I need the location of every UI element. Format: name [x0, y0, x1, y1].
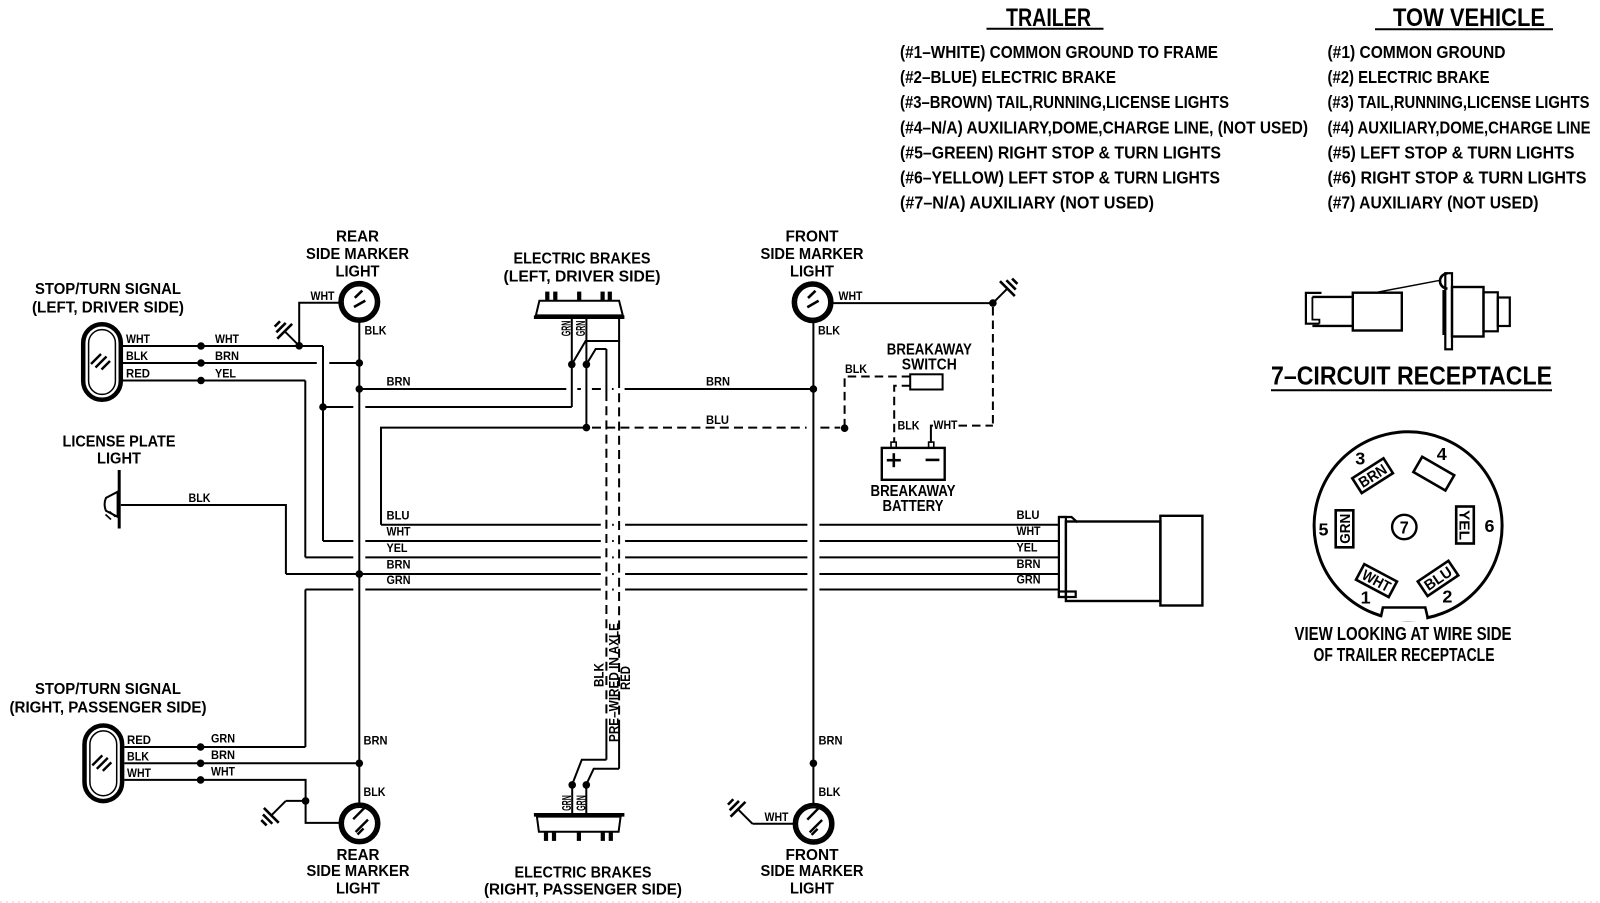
svg-text:(#4–N/A) AUXILIARY,DOME,CHARG: (#4–N/A) AUXILIARY,DOME,CHARGE LINE, (NO… [900, 117, 1308, 137]
wire GRN riser to right lamp [304, 590, 306, 748]
svg-text:GRN: GRN [1017, 573, 1041, 587]
svg-text:VIEW LOOKING AT WIRE SIDE: VIEW LOOKING AT WIRE SIDE [1295, 623, 1512, 644]
svg-text:YEL: YEL [387, 541, 408, 555]
receptacle side view: step [1484, 292, 1498, 331]
wire right brake node down [585, 364, 587, 427]
pin 4 aux box [1413, 457, 1454, 491]
svg-text:RED: RED [126, 367, 150, 381]
front side marker lamp (top) [794, 283, 832, 321]
svg-text:1: 1 [1361, 588, 1371, 608]
harness wire BRN [286, 573, 601, 575]
svg-text:(RIGHT, PASSENGER SIDE): (RIGHT, PASSENGER SIDE) [10, 700, 207, 717]
junction WHT/ground node [295, 342, 303, 350]
wire RED from right stop/turn lamp [124, 746, 305, 748]
svg-text:LICENSE PLATE: LICENSE PLATE [63, 434, 176, 451]
front side marker lamp (bottom) [795, 805, 833, 843]
junction BLU at breakaway drop [841, 424, 849, 432]
harness wire BLU [381, 524, 601, 526]
svg-text:BRN: BRN [1017, 557, 1041, 571]
receptacle side view: gasket strip [1442, 290, 1445, 335]
receptacle side view: dust cap ring [1440, 274, 1447, 289]
svg-text:LIGHT: LIGHT [336, 881, 380, 898]
pin 1 WHT box [1356, 564, 1397, 597]
svg-text:BLK: BLK [126, 349, 148, 363]
junction lower V2 [810, 760, 818, 768]
wire WHT to rear side marker (top) [299, 303, 340, 346]
stop/turn signal (left) lamp body [83, 324, 121, 400]
svg-text:(LEFT, DRIVER SIDE): (LEFT, DRIVER SIDE) [32, 299, 184, 316]
svg-text:RED: RED [127, 733, 151, 747]
wire left pin of top brake [571, 319, 573, 365]
junction on RED wire [197, 377, 205, 385]
junction left pin (bottom brake) [568, 781, 576, 789]
pin 2 BLU box [1418, 561, 1459, 596]
svg-text:(#2–BLUE) ELECTRIC BRAKE: (#2–BLUE) ELECTRIC BRAKE [900, 67, 1116, 87]
electric brakes (right) terminals [544, 832, 548, 841]
wire BRN branch to front marker [359, 388, 566, 390]
harness wire GRN [305, 589, 353, 591]
svg-text:WHT: WHT [765, 810, 790, 824]
receptacle side view: lanyard [1375, 280, 1440, 292]
svg-text:YEL: YEL [1017, 541, 1038, 555]
receptacle side view: nose [1498, 298, 1510, 327]
harness wire YEL [305, 556, 353, 558]
svg-text:(#2) ELECTRIC BRAKE: (#2) ELECTRIC BRAKE [1328, 67, 1490, 87]
svg-text:BRN: BRN [706, 375, 730, 389]
license plate light symbol [118, 470, 121, 529]
svg-text:BATTERY: BATTERY [883, 498, 944, 515]
harness connector bottom tab [1059, 592, 1076, 598]
svg-text:YEL: YEL [215, 367, 236, 381]
harness wire WHT [323, 540, 353, 542]
junction WHT/ground node (bottom) [302, 797, 310, 805]
wire WHT to front marker (bottom) [753, 823, 795, 825]
wire WHT from right stop/turn lamp [124, 780, 340, 823]
svg-text:BLK: BLK [189, 491, 211, 505]
svg-text:STOP/TURN SIGNAL: STOP/TURN SIGNAL [35, 681, 181, 698]
svg-text:WHT: WHT [934, 418, 959, 432]
svg-text:GRN: GRN [1337, 514, 1354, 544]
svg-text:REAR: REAR [337, 847, 380, 864]
page bottom artifact [0, 901, 1600, 903]
svg-text:7: 7 [1400, 517, 1409, 537]
svg-text:4: 4 [1437, 444, 1447, 464]
stop/turn signal (right) lamp body [85, 726, 123, 802]
receptacle side view: left bracket [1306, 293, 1322, 324]
svg-text:LIGHT: LIGHT [790, 264, 834, 281]
svg-text:(#1) COMMON GROUND: (#1) COMMON GROUND [1328, 42, 1506, 62]
svg-text:(#3) TAIL,RUNNING,LICENSE LI: (#3) TAIL,RUNNING,LICENSE LIGHTS [1328, 92, 1590, 112]
pin 3 BRN box [1352, 458, 1393, 493]
svg-text:SIDE MARKER: SIDE MARKER [761, 246, 864, 263]
svg-text:(#5–GREEN) RIGHT STOP & TU: (#5–GREEN) RIGHT STOP & TURN LIGHTS [900, 142, 1221, 162]
junction on BLK wire (right lamp) [197, 760, 205, 768]
wire brake crossover B [586, 349, 606, 364]
wire WHT dashed front marker to battery - [992, 307, 994, 426]
battery + symbol [887, 459, 901, 462]
svg-text:BLU: BLU [706, 413, 729, 427]
svg-text:LIGHT: LIGHT [97, 450, 141, 467]
svg-text:BLK: BLK [819, 785, 841, 799]
svg-text:SIDE MARKER: SIDE MARKER [306, 246, 409, 263]
junction V1 lower BRN/BLK [356, 760, 364, 768]
receptacle side view: mounting flange [1445, 273, 1452, 349]
wire WHT from front marker [832, 302, 993, 304]
svg-text:WHT: WHT [1017, 524, 1042, 538]
chassis ground at left stop/turn [285, 331, 299, 345]
svg-text:WHT: WHT [126, 332, 151, 346]
svg-text:GRN: GRN [575, 795, 589, 811]
junction V1 with harness BRN [356, 570, 364, 578]
wire right pin of top brake [585, 319, 587, 365]
wire BLK dashed to breakaway switch [845, 377, 911, 426]
junction on BLK wire [197, 359, 205, 367]
svg-text:SIDE MARKER: SIDE MARKER [761, 863, 864, 880]
svg-text:SWITCH: SWITCH [902, 357, 957, 374]
svg-text:BRN: BRN [819, 734, 843, 748]
svg-text:BRN: BRN [387, 375, 411, 389]
svg-text:WHT: WHT [211, 764, 236, 778]
wire BLK/BRN front vertical V2 [812, 321, 814, 804]
junction on WHT wire (right lamp) [197, 776, 205, 784]
svg-text:RED: RED [618, 666, 633, 690]
receptacle face bottom notch [1382, 605, 1426, 622]
chassis ground at front marker (bottom) [738, 809, 752, 823]
harness connector flange [1059, 517, 1066, 597]
chassis ground at front marker [993, 289, 1007, 303]
svg-text:BRN: BRN [211, 748, 235, 762]
wire left brake node down [571, 364, 573, 407]
rear side marker lamp (top) [340, 283, 378, 321]
svg-text:BLU: BLU [1017, 508, 1040, 522]
wire BLK dashed switch to battery + [894, 386, 910, 442]
wire WHT from left stop/turn lamp [123, 345, 323, 347]
svg-text:(#3–BROWN) TAIL,RUNNING,LICEN: (#3–BROWN) TAIL,RUNNING,LICENSE LIGHTS [900, 92, 1229, 112]
receptacle face outline [1314, 432, 1502, 620]
wire BLU dashed to breakaway [592, 427, 807, 429]
junction BRN at front marker [810, 385, 818, 393]
svg-text:(#1–WHITE) COMMON GROUND TO: (#1–WHITE) COMMON GROUND TO FRAME [900, 42, 1218, 62]
svg-text:WHT: WHT [387, 525, 412, 539]
pin 6 YEL box [1456, 507, 1474, 544]
svg-text:GRN: GRN [211, 732, 235, 746]
receptacle side view: main body [1452, 287, 1484, 337]
svg-text:(#6–YELLOW) LEFT STOP & TU: (#6–YELLOW) LEFT STOP & TURN LIGHTS [900, 168, 1220, 188]
svg-text:STOP/TURN SIGNAL: STOP/TURN SIGNAL [35, 281, 181, 298]
svg-text:GRN: GRN [560, 795, 574, 811]
wire YEL riser from left lamp RED wire [304, 381, 306, 558]
junction WHT/ground front [989, 299, 997, 307]
junction V1 BRN branch [356, 385, 364, 393]
pin 5 GRN box [1336, 510, 1354, 547]
svg-text:WHT: WHT [311, 289, 336, 303]
junction right brake node [583, 361, 591, 369]
svg-text:3: 3 [1355, 449, 1365, 469]
breakaway battery terminals [891, 442, 896, 448]
svg-text:(RIGHT, PASSENGER SIDE): (RIGHT, PASSENGER SIDE) [484, 882, 682, 899]
junction right pin (bottom brake) [583, 781, 591, 789]
svg-text:BLK: BLK [364, 785, 386, 799]
svg-text:WHT: WHT [127, 766, 152, 780]
junction BLU at right brake wire [583, 424, 591, 432]
junction on WHT wire [197, 342, 205, 350]
svg-text:ELECTRIC BRAKES: ELECTRIC BRAKES [514, 251, 651, 268]
svg-text:GRN: GRN [387, 573, 411, 587]
electric brakes (left) body [536, 301, 623, 316]
junction V1 with left lamp BLK wire [356, 359, 364, 367]
wire BLK from right stop/turn lamp [124, 762, 359, 764]
svg-text:OF TRAILER RECEPTACLE: OF TRAILER RECEPTACLE [1314, 644, 1495, 665]
svg-text:WHT: WHT [839, 289, 864, 303]
wire BLK from license plate light [121, 505, 286, 574]
svg-text:FRONT: FRONT [786, 229, 839, 246]
svg-text:YEL: YEL [1456, 510, 1473, 540]
harness connector body [1066, 522, 1161, 602]
svg-text:LIGHT: LIGHT [790, 881, 834, 898]
svg-text:BRN: BRN [215, 349, 239, 363]
svg-text:5: 5 [1319, 519, 1329, 539]
svg-text:(#7–N/A) AUXILIARY (NOT USE: (#7–N/A) AUXILIARY (NOT USED) [900, 193, 1154, 213]
receptacle side view: cable housing [1353, 293, 1402, 331]
electric brakes (right) body [534, 813, 625, 817]
breakaway battery body [882, 448, 945, 480]
junction WHT at y407 [319, 403, 327, 411]
svg-text:REAR: REAR [336, 229, 379, 246]
wire brake crossover A [572, 319, 619, 365]
rear side marker lamp (bottom) [341, 804, 379, 842]
wire left pin of bottom brake [571, 784, 573, 814]
svg-text:6: 6 [1485, 516, 1495, 536]
wire BLK axle riser [605, 349, 607, 392]
svg-text:BLK: BLK [898, 419, 920, 433]
breakaway switch body [910, 374, 942, 389]
battery - symbol [926, 459, 940, 462]
wire WHT branch to left electric brake [323, 406, 353, 408]
wire BLK from left stop/turn lamp [123, 362, 317, 364]
junction on RED wire (right lamp) [197, 743, 205, 751]
receptacle side view: left body [1312, 296, 1352, 298]
svg-text:BRN: BRN [364, 734, 388, 748]
svg-text:FRONT: FRONT [786, 847, 839, 864]
wire RED from left stop/turn lamp [123, 380, 305, 382]
svg-text:2: 2 [1442, 587, 1452, 607]
wire BLK/BRN main vertical (rear markers) [358, 321, 360, 803]
wire right pin of bottom brake [585, 784, 587, 814]
svg-text:(#6) RIGHT STOP & TURN LI: (#6) RIGHT STOP & TURN LIGHTS [1328, 168, 1587, 188]
svg-text:WHT: WHT [215, 332, 240, 346]
electric brakes (left) terminals [545, 292, 549, 301]
harness connector top tab [1059, 517, 1078, 522]
svg-text:7–CIRCUIT RECEPTACLE: 7–CIRCUIT RECEPTACLE [1271, 361, 1552, 391]
svg-text:SIDE MARKER: SIDE MARKER [307, 863, 410, 880]
svg-text:BLK: BLK [127, 749, 149, 763]
svg-text:(#7) AUXILIARY (NOT USED): (#7) AUXILIARY (NOT USED) [1328, 193, 1539, 213]
wire BLU riser and run [381, 428, 585, 525]
svg-text:LIGHT: LIGHT [336, 264, 380, 281]
svg-text:(LEFT, DRIVER SIDE): (LEFT, DRIVER SIDE) [504, 268, 661, 285]
wire RED axle riser [618, 341, 620, 379]
svg-text:(#4) AUXILIARY,DOME,CHARGE L: (#4) AUXILIARY,DOME,CHARGE LINE [1328, 117, 1591, 137]
svg-text:(#5) LEFT STOP & TURN LIG: (#5) LEFT STOP & TURN LIGHTS [1328, 142, 1575, 162]
chassis ground at right stop/turn [286, 800, 306, 802]
svg-text:BLK: BLK [591, 663, 606, 687]
wire WHT drop to junction [322, 346, 324, 541]
svg-text:BLK: BLK [818, 324, 840, 338]
svg-text:BLK: BLK [365, 324, 387, 338]
svg-text:BRN: BRN [387, 558, 411, 572]
junction left brake node [568, 361, 576, 369]
harness connector rear housing [1160, 516, 1202, 606]
svg-text:ELECTRIC BRAKES: ELECTRIC BRAKES [515, 864, 652, 881]
svg-text:BLU: BLU [387, 508, 410, 522]
receptacle center pin 7 [1392, 515, 1416, 539]
svg-text:TOW VEHICLE: TOW VEHICLE [1393, 4, 1545, 32]
svg-text:BLK: BLK [845, 362, 867, 376]
